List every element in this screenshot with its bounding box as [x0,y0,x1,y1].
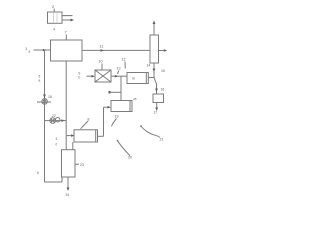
svg-text:m: m [132,77,135,81]
svg-text:17: 17 [154,111,158,115]
arrowhead on valve line [61,119,64,122]
svg-text:20: 20 [128,156,132,160]
svg-text:23: 23 [80,163,84,167]
svg-text:12: 12 [122,58,126,62]
wire T1 output upper [62,15,73,17]
wire into B5 with arrow [66,135,71,137]
leader diagonal above B5 [81,121,89,129]
svg-text:4: 4 [53,28,55,32]
svg-text:24: 24 [66,193,70,197]
wire column right outlet with arrow [159,50,165,52]
svg-text:22: 22 [52,114,56,118]
leader dot to branch wire [108,91,111,94]
valve V1 (crossed circle on recycle) [42,99,48,105]
box B5 (cooler) [74,130,98,142]
svg-text:3: 3 [56,137,58,141]
svg-text:11: 11 [100,45,104,49]
svg-text:7: 7 [65,30,68,35]
svg-text:18: 18 [48,95,52,99]
svg-text:a: a [29,50,31,54]
svg-text:.: . [40,82,41,86]
heat exchanger E (crossed box) [95,70,111,82]
svg-text:b: b [79,76,81,80]
box B4 (lower middle unit) [111,101,132,112]
box S (small right unit) [153,94,164,103]
svg-text:6: 6 [37,171,39,175]
wire B5 bottom to separator top [72,142,74,150]
box M (middle horizontal unit) [127,73,148,84]
wire branch down to B4 [120,76,122,100]
svg-text:8: 8 [88,118,90,122]
wire recycle bottom elbow to separator [45,181,63,183]
wire junction down into S with arrow [154,78,157,95]
svg-text:10: 10 [99,60,103,64]
wire column bottom downcomer with arrow [153,63,155,78]
svg-text:2: 2 [52,4,55,9]
valve V2 (crossed circle) [50,118,56,124]
svg-text:21: 21 [160,138,164,142]
box T1 (top-left small unit) [48,12,63,23]
separator P (tall bottom-left vessel) [62,150,76,177]
reactor R (large box) [51,40,83,61]
label right of separator with dash [75,163,79,165]
wire into E with arrow [87,75,92,77]
arrowhead down on recycle [43,95,46,99]
column C (tall right vessel) [150,35,159,63]
svg-text:0: 0 [56,143,58,147]
svg-text:16: 16 [161,88,165,92]
wire column top vent with up arrow [153,23,155,36]
wire S outlet down with arrow [156,103,158,109]
wire T1 output lower with arrow [62,19,71,21]
svg-text:13: 13 [117,67,121,71]
valve V3 (small circle) [56,118,60,122]
valve V1 side stub [37,101,51,103]
wire R downcomer to separator [65,61,67,150]
wire R to column (main line) [82,49,150,51]
svg-text:14: 14 [147,64,151,68]
wire feed into R with arrow [34,49,51,51]
leader C with dot and numeral [140,125,142,127]
wire separator outlet down with arrow [67,177,69,189]
svg-text:15: 15 [161,69,165,73]
leader B with dot [117,140,119,142]
wire E to M with arrow [111,75,127,77]
wire B5 to riser to B4 with arrow [98,135,104,137]
wire junction to box M [148,77,154,79]
svg-text:.: . [153,17,154,21]
recycle line vertical [44,50,46,182]
svg-text:25: 25 [133,97,137,101]
svg-text:,: , [37,100,38,104]
valve branch line [45,120,67,122]
svg-text:19: 19 [115,115,119,119]
